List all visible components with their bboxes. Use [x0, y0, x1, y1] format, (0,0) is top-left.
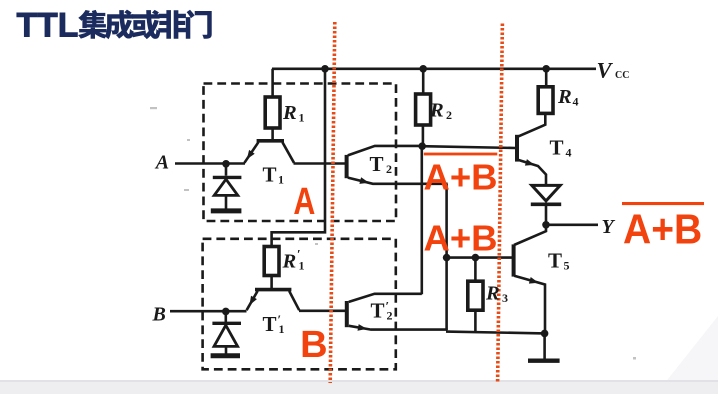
diode D2 (input clamp at B): cathode bar, triangle, end bar — [211, 323, 241, 356]
wire: Vcc rail down to R'1 (with jog) — [272, 69, 325, 247]
svg-text:R: R — [557, 86, 572, 108]
wire: T2 emitter run — [348, 178, 448, 184]
svg-text:R: R — [282, 102, 297, 124]
transistor T4 emitter arrow — [525, 159, 535, 166]
svg-text:A+B: A+B — [424, 217, 498, 258]
junction: output node Y — [542, 221, 550, 229]
wire: T1 collector to T2 base — [294, 162, 346, 165]
transistor T'2 base bar — [345, 301, 349, 327]
wire: R2 bottom lead — [422, 125, 425, 146]
transistor T1 (multi-emitter input, base bar + emitter arrow) — [244, 141, 294, 163]
transistor T2 base bar — [345, 155, 349, 178]
ground symbol — [528, 359, 560, 363]
wire: T4 emitter to D3 — [518, 160, 546, 185]
junction: node A / D1 — [222, 160, 230, 168]
junction: T5 base line / R3 — [472, 254, 480, 262]
wire: R3 bottom to ground node — [446, 332, 545, 334]
junction: ground node — [541, 330, 549, 338]
slide title: TTL集成或非门 — [17, 6, 212, 44]
wire: Vcc top rail — [272, 68, 596, 71]
wire: input B to T'1 emitter — [170, 310, 247, 313]
svg-text:5: 5 — [564, 259, 570, 273]
red dotted separator line (right) — [498, 24, 503, 382]
wire: output node to Y terminal — [546, 224, 598, 227]
wire: R3 top lead — [474, 258, 477, 282]
svg-text:T: T — [550, 135, 564, 159]
wire: input A to T1 emitter — [175, 162, 245, 165]
wire: R2 top lead — [422, 69, 425, 95]
wire: collector tie vertical (T2/T'2) — [420, 146, 423, 294]
wire: ground node lead — [543, 333, 546, 358]
resistor R3 body — [468, 281, 483, 310]
resistor R1 body — [265, 97, 280, 128]
wire: R1 bottom lead to T1 base — [271, 128, 274, 140]
junction: Vcc rail / vertical feed — [321, 65, 329, 73]
wire: T5 collector to output node — [514, 225, 546, 245]
wire: T5 emitter down to ground node — [514, 276, 545, 334]
svg-text:3: 3 — [502, 291, 508, 305]
svg-text:T: T — [371, 299, 385, 323]
junction: Vcc rail / R2 — [419, 65, 427, 73]
svg-text:T: T — [370, 152, 384, 176]
svg-text:B: B — [152, 304, 166, 326]
diode D1 (input clamp at A): cathode bar, triangle, end bar — [211, 177, 242, 211]
svg-text:1: 1 — [299, 111, 305, 125]
svg-text:2: 2 — [446, 108, 452, 122]
wire: T'1 collector to T'2 base — [299, 309, 346, 312]
wire: T2 collector run to node under R2 — [348, 146, 422, 156]
wire: D1 anode lead from node A — [225, 164, 228, 176]
svg-text:R: R — [429, 100, 444, 122]
svg-text:2: 2 — [386, 162, 392, 176]
svg-text:TTL: TTL — [17, 6, 79, 44]
wire: R3 bottom lead — [474, 310, 477, 332]
resistor R'1 body — [264, 247, 279, 276]
svg-text:Y: Y — [602, 216, 616, 238]
wire: D1 lower lead — [225, 196, 228, 210]
svg-text:T: T — [548, 249, 562, 273]
svg-text:4: 4 — [566, 145, 572, 159]
svg-text:4: 4 — [573, 95, 579, 109]
svg-text:A+B: A+B — [623, 205, 702, 253]
wire: emitter tie vertical (T2/T'2 to T5 base node) — [445, 184, 448, 330]
transistor T'2 emitter arrow — [358, 324, 368, 331]
transistor T4 base bar — [515, 135, 519, 162]
transistor T'1 (input, base bar + emitter arrow) — [247, 290, 300, 311]
diode D3 (level-shift diode between T4 and output) — [531, 185, 561, 204]
svg-text:T: T — [263, 312, 277, 336]
transistor T2 emitter arrow — [359, 177, 369, 184]
svg-text:R: R — [485, 283, 500, 305]
wire: T'2 emitter run — [349, 326, 448, 330]
svg-text:CC: CC — [615, 70, 629, 81]
wire: D3 cathode to output node — [545, 206, 548, 223]
resistor R2 body — [416, 94, 431, 125]
junction: R2 / T2 collector / T4 base — [418, 142, 426, 150]
svg-text:1: 1 — [279, 322, 285, 336]
dashed box: input stage A (T1, R1, D1, T2) — [204, 84, 397, 222]
svg-text:R: R — [282, 251, 297, 273]
transistor T5 base bar — [512, 244, 516, 276]
svg-text:2: 2 — [387, 309, 393, 323]
svg-text:1: 1 — [299, 259, 305, 273]
junction: node B / D2 — [222, 308, 230, 316]
transistor T5 emitter arrow — [529, 277, 539, 284]
svg-text:B: B — [300, 324, 327, 366]
wire: R4 bottom lead to T4 collector — [518, 113, 545, 137]
svg-text:A+B: A+B — [424, 156, 498, 197]
svg-text:T: T — [263, 163, 277, 187]
svg-text:A: A — [293, 181, 315, 223]
junction: emitter tie / T5 base — [443, 254, 451, 262]
junction: Vcc rail / R4 — [542, 65, 550, 73]
wire: R1 top lead — [271, 69, 274, 98]
wire: D2 anode lead from node B — [225, 311, 228, 322]
wire: R4 top lead — [545, 69, 548, 87]
svg-text:V: V — [597, 58, 614, 83]
red dotted separator line (left) — [330, 22, 335, 383]
wire: R'1 bottom lead to T'1 base — [270, 276, 273, 289]
svg-text:A: A — [154, 151, 169, 173]
resistor R4 body — [538, 87, 553, 114]
wire: T5 base wire — [447, 256, 514, 259]
dashed box: input stage B (T'1, R'1, D2, T'2) — [203, 239, 396, 369]
wire: node under R2 to T4 base — [422, 146, 515, 148]
wire: T'2 collector run — [349, 294, 422, 302]
svg-text:1: 1 — [278, 173, 284, 187]
wire: D2 lower lead — [225, 347, 228, 354]
